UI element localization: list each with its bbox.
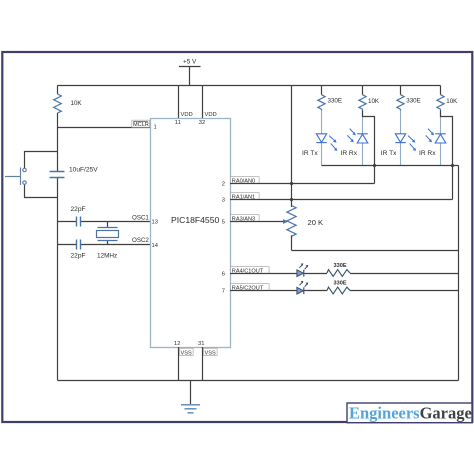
wire pot bottom to ground column xyxy=(292,250,459,252)
pin label RA3/AN3 pin 5 xyxy=(222,215,259,226)
pin label VSS pin 12 xyxy=(174,341,193,356)
svg-text:12: 12 xyxy=(174,341,180,347)
wire ground rail bottom xyxy=(58,380,459,382)
svg-text:6: 6 xyxy=(222,271,225,277)
wire RA0/AN0 net xyxy=(230,183,375,185)
svg-text:EngineersGarage: EngineersGarage xyxy=(349,404,472,423)
pin label RA5/C2OUT pin 7 xyxy=(222,284,269,295)
crystal X1 12MHz xyxy=(97,222,119,260)
svg-text:10K: 10K xyxy=(446,98,458,105)
svg-text:IR Rx: IR Rx xyxy=(341,150,358,157)
capacitor C1 10uF/25V xyxy=(50,167,99,178)
svg-text:IR Rx: IR Rx xyxy=(419,150,436,157)
wire IR Rx 2 tap xyxy=(441,111,453,200)
wire VDD pin 32 stub xyxy=(202,86,204,119)
photodiode IR Rx 2 xyxy=(419,111,446,166)
wire MCLR xyxy=(58,127,151,129)
svg-text:5: 5 xyxy=(222,219,225,225)
LED D1 (on RA4) xyxy=(297,263,308,276)
svg-text:VSS: VSS xyxy=(181,351,192,357)
svg-text:14: 14 xyxy=(152,243,159,249)
svg-text:PIC18F4550: PIC18F4550 xyxy=(171,215,219,225)
svg-text:10uF/25V: 10uF/25V xyxy=(69,167,98,174)
svg-text:3: 3 xyxy=(222,197,225,203)
resistor R6 330E (RA4) xyxy=(327,263,350,277)
resistor R5 10K (IR Rx 2) xyxy=(437,86,458,111)
logo EngineersGarage xyxy=(347,403,472,423)
wire OSC1 xyxy=(58,221,151,223)
svg-text:VSS: VSS xyxy=(205,351,216,357)
svg-text:VDD: VDD xyxy=(205,112,217,118)
node RA1 junction xyxy=(290,198,293,201)
svg-text:330E: 330E xyxy=(334,263,347,269)
wire RA3/AN3 to pot wiper xyxy=(230,219,289,224)
svg-text:1: 1 xyxy=(154,124,157,130)
LED IR Tx 1 xyxy=(302,111,337,166)
svg-text:VDD: VDD xyxy=(181,112,193,118)
frame border xyxy=(2,52,472,422)
op IC U1 PIC18F4550 xyxy=(151,119,231,348)
pin label VSS pin 31 xyxy=(198,341,217,356)
svg-text:32: 32 xyxy=(199,120,205,126)
svg-text:31: 31 xyxy=(198,341,204,347)
photodiode IR Rx 1 xyxy=(341,111,368,166)
svg-text:330E: 330E xyxy=(334,280,347,286)
svg-text:22pF: 22pF xyxy=(71,206,86,213)
resistor R1 10K (MCLR pull-up) xyxy=(54,86,83,114)
pin label RA4/C1OUT pin 6 xyxy=(222,267,269,278)
pin label RA0/AN0 pin 2 xyxy=(222,177,259,188)
LED IR Tx 2 xyxy=(381,111,416,166)
wire sensor ground rail xyxy=(322,166,459,381)
wire VDD pin 11 stub xyxy=(178,86,180,119)
+5V supply symbol xyxy=(179,58,201,85)
svg-text:2: 2 xyxy=(222,181,225,187)
svg-text:330E: 330E xyxy=(328,98,342,105)
pin label RA1/AN1 pin 3 xyxy=(222,193,259,204)
pin label OSC2 pin 14 xyxy=(132,237,159,249)
svg-text:OSC1: OSC1 xyxy=(132,215,149,222)
wire OSC2 xyxy=(58,244,151,246)
svg-text:11: 11 xyxy=(175,120,181,126)
svg-text:10K: 10K xyxy=(71,100,83,107)
push button SW1 xyxy=(5,168,26,186)
wire RA5/C2OUT net xyxy=(230,290,459,292)
capacitor C3 22pF xyxy=(71,240,86,260)
resistor R2 330E (IR Tx 1) xyxy=(318,86,342,111)
svg-text:10K: 10K xyxy=(368,98,380,105)
wire RA1/AN1 net xyxy=(230,199,453,201)
svg-text:12MHz: 12MHz xyxy=(97,252,117,259)
svg-text:22pF: 22pF xyxy=(71,252,86,259)
resistor R3 10K (IR Rx 1) xyxy=(359,86,380,111)
wire VSS pin 31 stub xyxy=(202,347,204,381)
wire left column vertical xyxy=(57,113,59,381)
svg-text:+5 V: +5 V xyxy=(183,58,197,65)
pin label OSC1 pin 13 xyxy=(132,215,158,226)
capacitor C2 22pF xyxy=(71,206,86,226)
wire reset button loop xyxy=(25,152,58,198)
potentiometer VR1 20K xyxy=(287,86,323,251)
svg-text:20 K: 20 K xyxy=(308,218,324,227)
svg-text:IR Tx: IR Tx xyxy=(302,150,318,157)
pin label VDD pin 11 xyxy=(175,112,193,126)
wire +5V rail xyxy=(58,85,441,87)
ground xyxy=(181,381,200,413)
svg-text:330E: 330E xyxy=(406,98,420,105)
resistor R7 330E (RA5) xyxy=(327,280,350,294)
svg-text:MCLR: MCLR xyxy=(133,122,149,128)
node tap 1 crossing xyxy=(373,164,376,167)
pin label VDD pin 32 xyxy=(199,112,217,126)
wire VSS pin 12 stub xyxy=(178,347,180,381)
LED D2 (on RA5) xyxy=(297,281,308,294)
pin label MCLR pin 1 xyxy=(132,120,157,130)
wire IR Rx 1 tap xyxy=(363,111,375,184)
node RA0 junction xyxy=(290,182,293,185)
resistor R4 330E (IR Tx 2) xyxy=(397,86,421,111)
node tap 2 crossing xyxy=(451,164,454,167)
svg-text:IR Tx: IR Tx xyxy=(381,150,397,157)
svg-text:7: 7 xyxy=(222,288,225,294)
svg-text:OSC2: OSC2 xyxy=(132,237,149,244)
wire RA4/C1OUT net xyxy=(230,273,459,275)
svg-text:13: 13 xyxy=(152,219,158,225)
